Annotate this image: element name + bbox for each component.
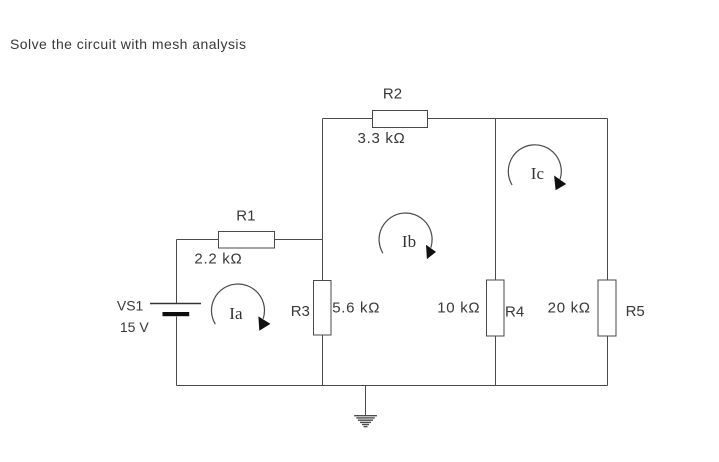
svg-text:5.6 kΩ: 5.6 kΩ	[332, 299, 380, 316]
svg-text:20 kΩ: 20 kΩ	[548, 300, 591, 317]
svg-text:Ic: Ic	[531, 164, 545, 183]
svg-text:R4: R4	[505, 304, 524, 321]
svg-text:2.2 kΩ: 2.2 kΩ	[194, 250, 242, 267]
svg-text:Ib: Ib	[402, 232, 416, 251]
svg-text:3.3 kΩ: 3.3 kΩ	[358, 130, 406, 147]
svg-text:Solve the circuit with mesh an: Solve the circuit with mesh analysis	[10, 36, 246, 52]
svg-text:Ia: Ia	[229, 304, 243, 323]
svg-text:R3: R3	[291, 303, 310, 320]
svg-text:R5: R5	[626, 303, 645, 320]
svg-text:R2: R2	[383, 86, 402, 103]
svg-text:10 kΩ: 10 kΩ	[437, 300, 480, 317]
svg-text:R1: R1	[236, 207, 255, 224]
svg-text:15 V: 15 V	[120, 319, 149, 335]
svg-text:VS1: VS1	[117, 298, 144, 314]
